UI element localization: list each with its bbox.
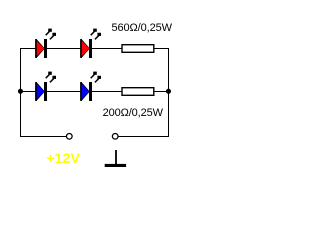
svg-text:560Ω/0,25W: 560Ω/0,25W — [112, 22, 173, 34]
svg-text:+12V: +12V — [46, 151, 80, 166]
LED D1 red — [35, 29, 56, 58]
LED D4 blue — [80, 72, 101, 101]
terminal ground side (open circle) — [112, 133, 118, 139]
resistor R2 200 ohm — [122, 88, 154, 96]
ground symbol — [105, 150, 126, 167]
junction right node — [166, 89, 171, 94]
junction left node — [18, 89, 23, 94]
wire: left vertical — [20, 48, 22, 137]
wire: top row horizontal — [20, 48, 169, 50]
wire: bottom right from ground terminal — [115, 136, 169, 138]
terminal +12V (open circle) — [66, 133, 72, 139]
wire: second row horizontal — [20, 91, 169, 93]
resistor R1 560 ohm — [122, 45, 154, 53]
svg-text:200Ω/0,25W: 200Ω/0,25W — [103, 107, 164, 119]
LED D2 red — [80, 29, 101, 58]
LED D3 blue — [35, 72, 56, 101]
wire: bottom left to +12V terminal — [20, 136, 69, 138]
wire: right vertical — [168, 48, 170, 137]
